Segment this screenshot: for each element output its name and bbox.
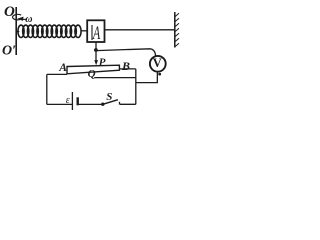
wire switch to battery	[79, 103, 103, 105]
switch pivot dot	[101, 103, 104, 106]
wall fixed support	[174, 12, 176, 48]
svg-text:B: B	[121, 59, 130, 73]
axis OO'	[15, 7, 17, 55]
slider arrowhead	[94, 60, 98, 65]
wire coil to ammeter	[81, 30, 87, 32]
battery long plate (positive)	[71, 92, 73, 110]
battery short plate (negative)	[76, 97, 78, 105]
wire coil entry from axis	[16, 31, 19, 33]
wire ammeter to wall	[105, 29, 175, 31]
wire Q to B-branch (T junction)	[94, 77, 136, 79]
omega arrow tail	[23, 18, 28, 20]
voltmeter V	[150, 56, 166, 72]
wire right vertical branch	[135, 69, 137, 104]
wire to bar A end	[47, 73, 67, 75]
wire bottom right to switch	[120, 103, 136, 105]
slider arrow P shaft	[95, 50, 97, 61]
svg-text:V: V	[153, 56, 162, 70]
switch blade	[103, 100, 118, 105]
svg-text:O: O	[4, 4, 15, 20]
wall hatching	[175, 13, 179, 46]
wire battery to left vertical	[47, 103, 73, 105]
ammeter needle mark	[91, 25, 93, 40]
wire bar B end to right vertical	[119, 68, 135, 70]
svg-text:A: A	[58, 62, 67, 74]
svg-text:P: P	[99, 56, 106, 68]
svg-text:A: A	[92, 24, 101, 44]
svg-text:O′: O′	[2, 44, 16, 59]
svg-text:ω: ω	[25, 14, 32, 25]
potentiometer bar AB (slightly skewed as in scan)	[67, 65, 119, 74]
wire ammeter bottom to junction	[95, 42, 97, 50]
svg-text:S: S	[106, 91, 112, 103]
inductor coil (spring) rings	[18, 25, 81, 37]
wire left vertical branch	[46, 74, 48, 104]
rotation arc around axis	[13, 14, 22, 19]
wire junction to voltmeter top	[96, 49, 155, 56]
wire voltmeter bottom lead	[156, 72, 158, 83]
switch fixed contact	[119, 102, 121, 105]
ammeter A box	[87, 20, 104, 42]
junction node dot	[94, 48, 98, 52]
voltmeter bottom terminal dot	[158, 73, 161, 76]
wire voltmeter to B-branch (T junction)	[136, 82, 158, 84]
rotation arrowhead	[17, 17, 23, 21]
